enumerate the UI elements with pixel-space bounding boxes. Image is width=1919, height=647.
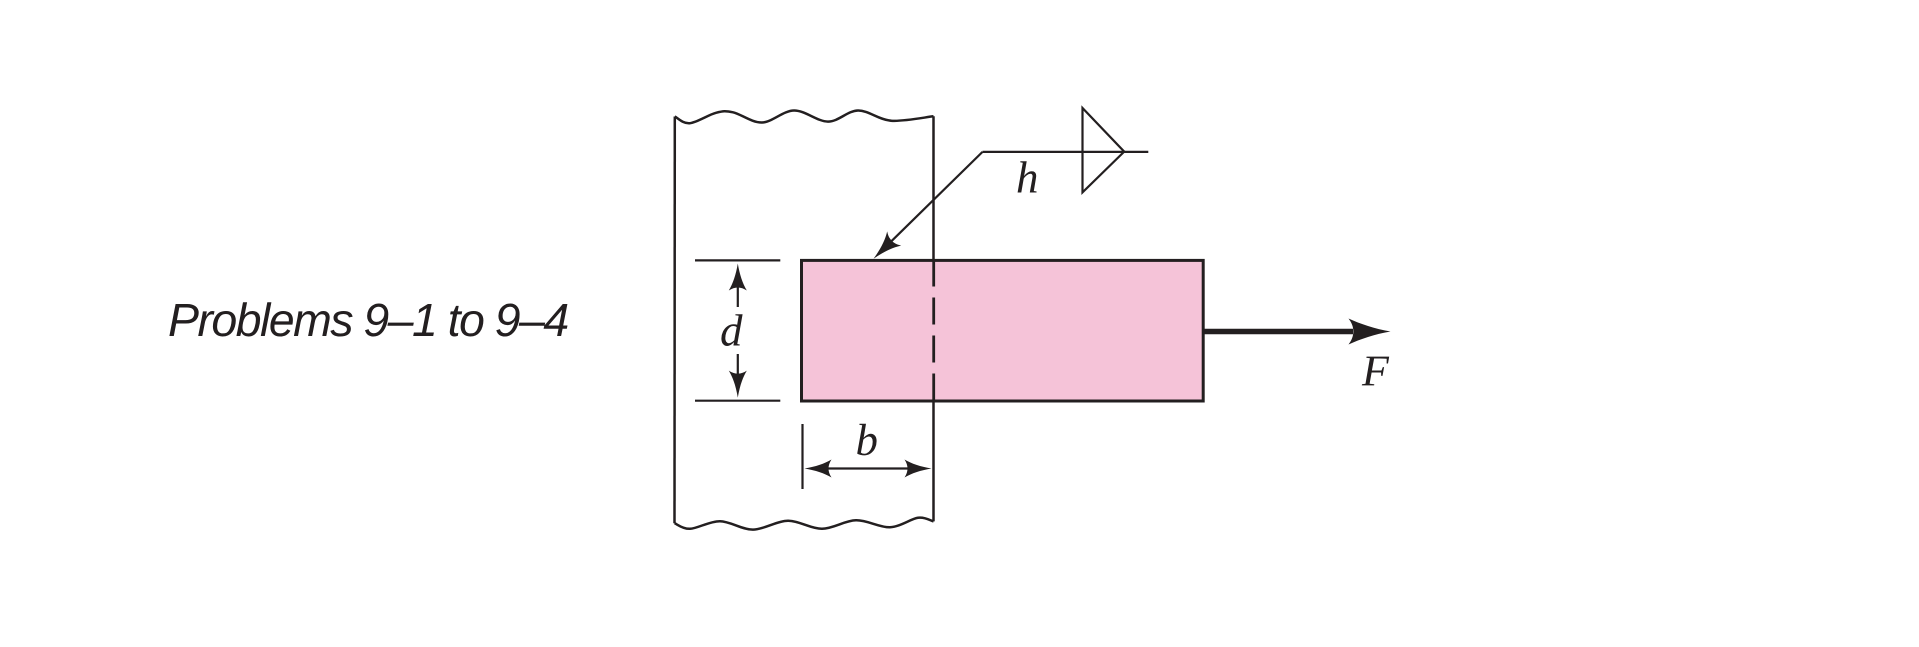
force F arrowhead <box>1349 319 1391 345</box>
pink bar <box>802 260 1204 401</box>
label b <box>857 424 876 456</box>
wall right edge upper segment <box>932 116 935 260</box>
weld symbol triangle <box>1083 108 1125 192</box>
dimension b right arrowhead <box>905 460 932 478</box>
force F arrow shaft <box>1203 329 1353 335</box>
label d <box>721 314 742 346</box>
dimension d bottom extension tick <box>695 400 780 402</box>
dimension d lower arrowhead <box>729 371 747 398</box>
label F <box>1362 357 1389 386</box>
wall right edge lower segment <box>932 401 935 521</box>
wall bottom torn edge <box>675 518 934 530</box>
dimension d top extension tick <box>695 259 780 261</box>
dimension d upper arrowhead <box>729 264 747 291</box>
weld leader horizontal segment <box>983 151 1149 153</box>
weld leader arrowhead <box>866 231 901 266</box>
weld leader diagonal segment <box>884 152 983 249</box>
dimension b left arrowhead <box>805 460 832 478</box>
label h <box>1018 161 1037 192</box>
wall left edge <box>673 117 676 524</box>
dimension b left extension tick <box>801 424 803 489</box>
wall top torn edge <box>675 110 934 123</box>
dimension b arrow shaft <box>822 467 914 469</box>
dimension d upper arrow shaft <box>737 284 739 307</box>
caption: Problems 9-1 to 9-4 <box>169 302 567 336</box>
hidden edge (dashed) through bar <box>932 260 935 402</box>
dimension d lower arrow shaft <box>737 354 739 378</box>
